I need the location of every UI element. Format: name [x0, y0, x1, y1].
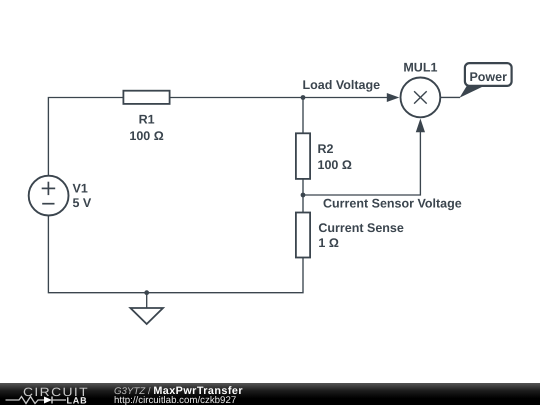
- wire with arrow to MUL1 bottom input: [303, 119, 425, 196]
- svg-text:100 Ω: 100 Ω: [318, 158, 352, 172]
- wire: [170, 97, 303, 99]
- svg-text:1 Ω: 1 Ω: [318, 236, 338, 250]
- voltage source V1: [29, 176, 92, 216]
- footer bar: [0, 383, 540, 405]
- footer credits: [114, 385, 243, 405]
- svg-text:Current Sensor Voltage: Current Sensor Voltage: [323, 197, 462, 211]
- wire: [302, 179, 304, 213]
- svg-text:R2: R2: [318, 142, 334, 156]
- svg-text:R1: R1: [139, 113, 155, 127]
- resistor R3 Current Sense: [296, 213, 404, 258]
- svg-text:LAB: LAB: [67, 395, 88, 405]
- node Load Voltage: [301, 78, 380, 100]
- svg-text:Power: Power: [469, 70, 507, 84]
- ground: [130, 290, 163, 324]
- wire: [48, 215, 303, 292]
- CircuitLab logo: [6, 385, 90, 405]
- node Power flag: [460, 63, 512, 98]
- resistor R2: [296, 133, 352, 179]
- svg-text:5 V: 5 V: [73, 196, 92, 210]
- resistor R1: [123, 91, 169, 143]
- wire: [48, 98, 123, 176]
- svg-text:Load Voltage: Load Voltage: [303, 78, 381, 92]
- svg-text:100 Ω: 100 Ω: [129, 129, 163, 143]
- wire: [302, 98, 304, 134]
- node Current Sensor Voltage: [301, 193, 462, 211]
- svg-text:MUL1: MUL1: [403, 60, 437, 74]
- wire: [440, 96, 460, 98]
- svg-text:http://circuitlab.com/czkb927: http://circuitlab.com/czkb927: [114, 395, 236, 405]
- multiplier MUL1: [401, 60, 441, 117]
- svg-text:V1: V1: [73, 181, 88, 195]
- svg-text:Current Sense: Current Sense: [318, 221, 403, 235]
- wire arrow into MUL1 left input: [303, 93, 399, 102]
